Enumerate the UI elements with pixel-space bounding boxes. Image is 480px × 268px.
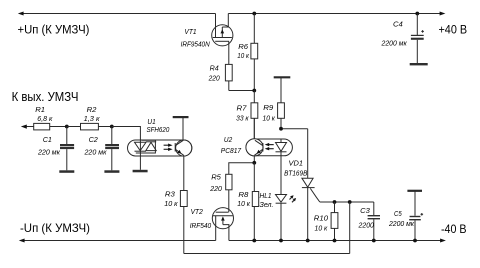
- svg-text:220 мк: 220 мк: [83, 149, 107, 156]
- svg-text:R7: R7: [237, 104, 248, 112]
- svg-text:10 к: 10 к: [237, 201, 250, 208]
- svg-text:VT1: VT1: [184, 29, 196, 36]
- common rail bar above U1 collector: [173, 117, 189, 140]
- node junction top rail / C4: [415, 12, 419, 16]
- net label -Up (K UMZCH): [20, 222, 90, 235]
- node junction top rail / R6: [252, 12, 256, 16]
- svg-text:-Uп (К УМЗЧ): -Uп (К УМЗЧ): [20, 222, 90, 235]
- svg-text:SFH620: SFH620: [147, 127, 170, 134]
- wire U2 collector up to R7: [253, 118, 255, 138]
- wire +Up top rail left segment with left arrowhead: [18, 12, 216, 16]
- wire +Up top rail right segment with right arrowhead: [228, 12, 445, 16]
- svg-text:R3: R3: [165, 190, 176, 198]
- svg-text:R10: R10: [314, 214, 329, 223]
- svg-text:R5: R5: [211, 173, 222, 182]
- ground bar under C1: [59, 170, 74, 173]
- label C1 220mk: [37, 136, 61, 156]
- label R3 10k: [164, 190, 178, 208]
- svg-text:220: 220: [208, 75, 220, 82]
- capacitor C2: [105, 127, 119, 171]
- label C2 220mk: [83, 136, 107, 156]
- node junction rail / C3: [372, 239, 376, 243]
- resistor R8: [252, 163, 258, 241]
- svg-text:33 к: 33 к: [236, 115, 249, 122]
- svg-text:HL1: HL1: [260, 193, 272, 200]
- U2 phototransistor: [254, 140, 263, 155]
- wire U1 emitter to R3: [183, 156, 185, 191]
- svg-text:R4: R4: [210, 65, 219, 72]
- svg-text:2200: 2200: [358, 222, 375, 229]
- svg-text:VD1: VD1: [289, 159, 303, 168]
- svg-text:R6: R6: [238, 42, 249, 51]
- wire riser from lower line to gate line: [349, 202, 351, 254]
- node junction gate line / riser: [348, 200, 352, 204]
- resistor R4: [225, 64, 254, 90]
- svg-text:Зел.: Зел.: [260, 202, 274, 209]
- resistor R1: [34, 123, 67, 129]
- node junction rail / C5: [413, 239, 417, 243]
- optocoupler U2 body: [246, 139, 293, 156]
- svg-text:2200 мк: 2200 мк: [388, 221, 415, 228]
- resistor R5: [226, 174, 232, 212]
- svg-text:220: 220: [209, 186, 222, 193]
- svg-text:U1: U1: [147, 119, 156, 126]
- net label +Up (K UMZCH): [18, 23, 90, 36]
- node junction rail / HL1: [279, 239, 283, 243]
- label VT1 IRF9540N: [181, 29, 210, 49]
- svg-text:-40 В: -40 В: [441, 224, 467, 237]
- svg-text:+Uп (К УМЗЧ): +Uп (К УМЗЧ): [18, 23, 90, 36]
- net label -40 V: [441, 224, 467, 237]
- wire U2 emitter down to node: [253, 156, 255, 163]
- svg-text:C2: C2: [89, 136, 98, 144]
- svg-text:PC817: PC817: [221, 148, 241, 155]
- wire -Up bottom rail left segment with left arrowhead: [19, 239, 216, 243]
- optocoupler U1 body: [128, 140, 192, 156]
- net label +40 V: [439, 24, 468, 37]
- node junction rail / R8: [252, 239, 256, 243]
- svg-text:U2: U2: [224, 137, 233, 144]
- label R2 1,3k: [84, 105, 100, 122]
- svg-text:10 к: 10 к: [315, 226, 328, 233]
- svg-text:VT2: VT2: [191, 209, 203, 216]
- label R5 220: [209, 173, 222, 193]
- svg-text:R8: R8: [238, 190, 249, 198]
- net label K vyh. UMZCH: [12, 89, 79, 104]
- wire emitter node to R5: [229, 163, 255, 175]
- ground bar under C4: [410, 63, 428, 65]
- transistor VT1: [212, 14, 233, 65]
- thyristor VD1: [302, 178, 320, 240]
- node junction U2 emitter / R5 / R8: [252, 161, 256, 165]
- label VD1 BT169B: [284, 159, 308, 178]
- svg-text:R2: R2: [87, 105, 97, 114]
- svg-text:220 мк: 220 мк: [37, 149, 61, 156]
- label HL1 Zel.: [260, 193, 274, 209]
- node junction rail / R10: [333, 239, 337, 243]
- resistor R3: [180, 191, 187, 254]
- svg-text:10 к: 10 к: [263, 115, 276, 122]
- svg-text:R1: R1: [35, 105, 45, 114]
- capacitor C4: [411, 14, 424, 64]
- wire node R9 / U2 LED / VD1 anode: [281, 129, 308, 179]
- svg-text:IRF9540N: IRF9540N: [181, 41, 210, 48]
- svg-text:C5: C5: [394, 211, 402, 219]
- svg-text:C4: C4: [393, 20, 403, 29]
- label R8 10k: [237, 190, 250, 208]
- LED HL1: [276, 156, 297, 241]
- svg-text:C3: C3: [360, 206, 370, 215]
- node junction R9 / U2 LED: [279, 127, 283, 131]
- resistor R6: [251, 14, 258, 91]
- svg-text:IRF540: IRF540: [190, 223, 212, 230]
- node junction R4 / R6 / R7: [252, 89, 256, 93]
- node junction rail / VD1 cathode: [306, 239, 310, 243]
- resistor R9: [278, 103, 285, 129]
- label R9 10k: [263, 104, 276, 123]
- label R6 10k: [237, 42, 249, 60]
- U1 light arrows: [164, 144, 173, 152]
- U2 LED diode: [276, 139, 287, 156]
- ground bar under U1: [133, 170, 148, 173]
- label R1 6,8k: [35, 105, 53, 123]
- U2 light arrows pointing left: [265, 143, 274, 151]
- transistor VT2: [212, 208, 233, 241]
- svg-text:+40 В: +40 В: [439, 24, 468, 37]
- U1 phototransistor: [175, 140, 184, 155]
- capacitor C3: [368, 202, 380, 241]
- label VT2 IRF540: [190, 209, 212, 230]
- wire output line with left arrowhead: [21, 125, 34, 129]
- capacitor C1: [60, 127, 74, 171]
- wire -Up bottom rail right segment with right arrowhead: [229, 239, 446, 243]
- svg-text:2200 мк: 2200 мк: [381, 41, 408, 48]
- label C3 2200: [358, 206, 375, 229]
- node junction R2 / C2 / U1: [110, 125, 114, 129]
- label U2 PC817: [221, 137, 241, 155]
- capacitor C5: [409, 213, 423, 241]
- svg-text:6,8 к: 6,8 к: [37, 116, 53, 123]
- U1 input diode D1: [135, 142, 147, 151]
- svg-text:C1: C1: [43, 136, 52, 144]
- common rail bar above C5: [407, 191, 422, 216]
- svg-text:10 к: 10 к: [164, 200, 178, 208]
- resistor R10: [331, 202, 338, 241]
- wire U1 input through to ground: [139, 140, 141, 170]
- svg-text:1,3 к: 1,3 к: [84, 114, 100, 123]
- label R4 220: [208, 65, 220, 82]
- svg-text:10 к: 10 к: [237, 53, 249, 60]
- wire lower feedback line: [184, 253, 350, 255]
- resistor R2: [67, 123, 112, 129]
- ground bar under C2: [104, 170, 119, 173]
- label C5 2200mk: [388, 211, 415, 228]
- label R10 10k: [314, 214, 329, 233]
- node junction R1 / R2 / C1: [65, 125, 69, 129]
- svg-text:К вых. УМЗЧ: К вых. УМЗЧ: [12, 89, 79, 104]
- U1 input diode D2 anti-parallel: [136, 140, 156, 153]
- svg-text:R9: R9: [263, 104, 273, 112]
- svg-text:BT169B: BT169B: [284, 170, 308, 177]
- wire R2 node to U1 input: [112, 127, 141, 141]
- resistor R7: [251, 91, 258, 139]
- common rail bar above R9: [274, 77, 291, 103]
- label R7 33k: [236, 104, 249, 122]
- label C4 2200mk: [381, 20, 408, 48]
- label U1 SFH620: [147, 119, 170, 134]
- node junction gate line / R10: [333, 200, 337, 204]
- wire VD1 gate line: [320, 201, 374, 203]
